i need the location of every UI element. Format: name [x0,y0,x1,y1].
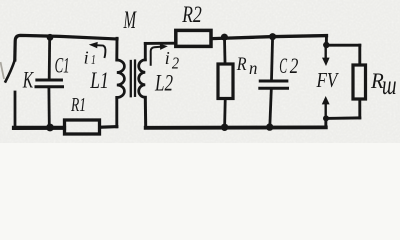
resistor Rp top lead [223,37,226,62]
svg-text:L1: L1 [90,68,109,93]
node: C1 bottom junction [46,124,54,132]
node: C2 bottom junction [266,123,273,130]
svg-text:C: C [279,53,287,78]
node: C1 top junction [47,34,54,41]
inductor L1 bottom lead [115,98,118,127]
svg-text:L2: L2 [154,71,173,96]
svg-text:1: 1 [91,53,96,68]
capacitor C2 plate bottom [260,87,288,90]
svg-text:R2: R2 [182,2,202,28]
wire: top corner down to FV top node [325,36,328,45]
paper noise texture [0,0,400,143]
arrester FV upper arrowhead (down) [322,58,330,66]
transformer core bar 2 [134,61,136,96]
node: Rp top junction [221,34,228,41]
wire: bottom right turn up to FV node [324,118,327,127]
svg-text:R: R [236,54,247,75]
current arrow i2 (pointing right) [151,44,168,66]
faint paper scratch left edge [1,62,5,79]
inductor L1 coil [117,60,125,98]
wire: FV bottom node to Rsh corner [326,116,360,119]
resistor Rp bottom lead [223,100,226,127]
wire: FV top node right to Rsh top corner [326,44,360,47]
svg-text:ш: ш [382,70,397,100]
svg-text:i: i [165,48,170,68]
svg-text:FV: FV [316,68,340,92]
inductor L2 top lead [144,43,147,59]
switch K lower lead [14,92,17,128]
resistor R1 box [65,120,100,134]
svg-text:K: K [22,68,34,93]
arrester FV lower arrowhead (up) [322,96,330,104]
wire: R1 right to L1 bottom corner [100,125,117,129]
switch K blade [6,60,15,82]
wire: right loop bottom [146,126,326,130]
arrester FV lower arrow shaft [325,104,327,118]
svg-text:i: i [84,47,89,67]
current arrow i1 (pointing left) [89,42,106,58]
node: C2 top junction [269,33,276,40]
svg-text:п: п [249,58,257,78]
capacitor C2 plate top [260,80,287,83]
svg-text:M: M [123,7,137,34]
wire: left edge + left loop top [15,35,117,60]
wire: Rsh top lead [358,45,361,63]
capacitor C1 top lead [48,37,51,79]
capacitor C2 top lead [272,37,273,80]
wire: left loop bottom (left of R1) [14,126,64,130]
node: Rp bottom junction [221,124,228,131]
capacitor C1 bottom lead [48,87,51,127]
arrester FV upper arrow shaft [325,45,327,59]
resistor R2 box [176,30,211,46]
svg-text:C1: C1 [55,53,70,78]
svg-text:2: 2 [290,53,299,78]
capacitor C1 plate top [37,79,62,82]
resistor Rp box [218,64,233,99]
node: FV top junction [323,42,329,48]
capacitor C2 bottom lead [270,89,272,127]
wire: L2 top to R2 box [145,42,174,45]
svg-text:2: 2 [172,54,180,73]
resistor Rsh box [353,65,366,99]
transformer core bar 1 [130,61,132,96]
node: FV bottom junction [323,115,329,121]
inductor L1 top lead [115,38,118,60]
inductor L2 bottom lead [144,97,147,127]
wire: Rsh bottom lead [358,101,361,118]
wire: R2 right to FV top corner [213,36,327,39]
inductor L2 coil [139,60,146,98]
capacitor C1 plate bottom [36,85,63,88]
paper background [0,0,400,143]
svg-text:R1: R1 [70,94,86,116]
